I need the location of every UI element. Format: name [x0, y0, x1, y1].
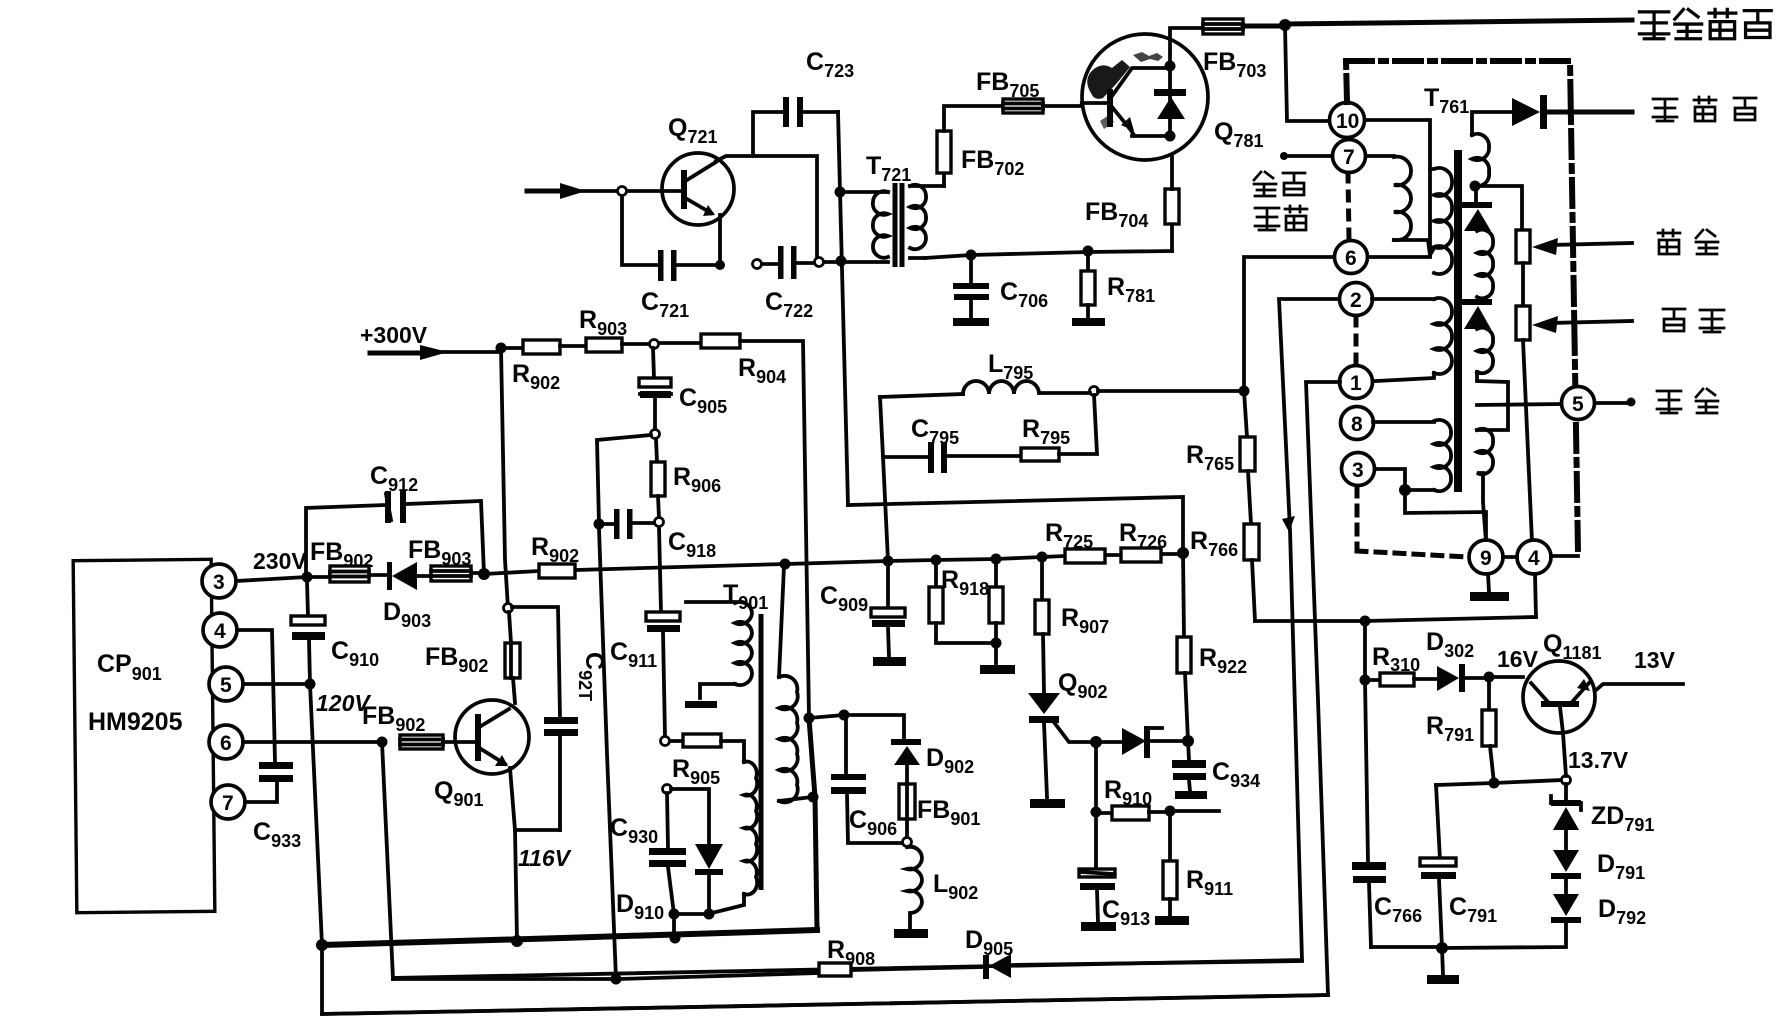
resistor R904	[659, 341, 701, 345]
transistor Q1181	[1523, 661, 1595, 733]
capacitor C913	[1094, 812, 1098, 869]
node 13.7V	[1562, 776, 1571, 785]
wire C918 vertical down to bus2	[599, 529, 616, 979]
T761 winding W1 (pins7-6)	[1366, 154, 1394, 158]
focus arrow	[1549, 243, 1632, 245]
label to-high-voltage	[1653, 97, 1756, 121]
pin 4 CP901	[203, 613, 237, 647]
junction R781 top	[1083, 246, 1094, 257]
T761 HV winding top section	[1472, 112, 1512, 135]
resistor R918 left	[934, 560, 938, 587]
HV winding jog	[1477, 372, 1508, 430]
diode D903	[369, 573, 387, 577]
resistor R725	[1065, 549, 1105, 563]
junction dots D910/C930 bottom	[669, 909, 680, 920]
diode D902	[891, 739, 921, 745]
pin 8	[1341, 407, 1374, 440]
T901 core	[759, 614, 764, 890]
+300V vertical down through FB902 to Q901 collector	[501, 348, 508, 608]
T761 winding W3 (pins2-1)	[1372, 297, 1434, 301]
wire pin4 right to shield	[1551, 554, 1578, 558]
svg-text:7: 7	[222, 792, 234, 815]
wire C722 to T721	[824, 260, 888, 264]
svg-text:13V: 13V	[1634, 647, 1676, 673]
screen potentiometer	[1516, 306, 1530, 340]
svg-text:13.7V: 13.7V	[1568, 747, 1629, 773]
wire pin2 left, long feedback vertical to bottom bus2	[393, 299, 1339, 978]
inductor L902	[907, 847, 922, 928]
svg-text:10: 10	[1336, 110, 1359, 133]
junction Q721 emitter / C721	[715, 260, 725, 270]
label filament	[1657, 389, 1718, 413]
pin 3 CP901	[202, 564, 236, 598]
ferrite bead FB902 pin6	[400, 735, 443, 749]
bus A right end up to C906 junction	[809, 718, 817, 930]
node R905 left	[661, 737, 670, 746]
resistor R795	[1021, 448, 1059, 461]
wire pin1 left, long vertical to bottom bus3	[322, 382, 1340, 1014]
junction L795/R765	[1239, 386, 1250, 397]
resistor R902 lower	[539, 564, 575, 578]
wire vertical C723 to R726 slant line	[838, 112, 848, 505]
junction T901 secondary bottom	[808, 792, 819, 803]
svg-text:16V: 16V	[1497, 646, 1539, 672]
resistor R905	[670, 739, 683, 743]
resistor R310	[1365, 678, 1380, 682]
diode D904	[1096, 740, 1122, 744]
node R903-R904	[650, 340, 659, 349]
svg-text:2: 2	[1350, 289, 1362, 312]
pin 10	[1330, 103, 1365, 138]
resistor R726	[1121, 548, 1161, 562]
wire input stub with arrow	[527, 189, 569, 194]
transistor Q721	[662, 153, 734, 225]
T761 winding W4 (pins8-3)	[1373, 420, 1434, 424]
label video-output-stage	[1254, 172, 1305, 196]
capacitor C905	[653, 348, 654, 378]
junction R791 bottom	[1489, 778, 1500, 789]
HV rectifier diode b	[1462, 299, 1492, 305]
pin 3	[1342, 453, 1375, 486]
wire pin3 to W4 bottom junction	[1375, 469, 1405, 490]
pin 4	[1517, 540, 1551, 574]
HV winding lower bumps	[1477, 429, 1493, 542]
pin 1	[1340, 366, 1373, 399]
wire pin6 left to R765 chain	[1244, 257, 1334, 391]
wire slant from C723 vertical to R726 junction	[848, 497, 1183, 553]
diode D910	[671, 789, 709, 844]
focus potentiometer	[1516, 230, 1530, 263]
svg-text:4: 4	[214, 620, 226, 643]
wire node left down the long C918 vertical	[597, 435, 651, 524]
pin 7 CP901	[211, 785, 245, 819]
capacitor C930	[667, 793, 668, 848]
bus A thick bottom	[322, 930, 817, 945]
capacitor C918	[594, 519, 605, 530]
zener diode ZD791	[1564, 784, 1568, 802]
wire pin6 right	[1368, 255, 1430, 259]
wire pin4 down to R310 rail	[1535, 574, 1536, 617]
wire pin6 junction down to bus2	[382, 742, 393, 979]
wire pin4 to C933	[237, 630, 275, 762]
wire T721 primary top	[840, 190, 888, 194]
wire FB703 junction down to pin10	[1285, 25, 1330, 121]
svg-text:4: 4	[1528, 547, 1540, 570]
wire Q1181 emitter out 13V	[1595, 684, 1683, 691]
ferrite bead FB902 on 230V rail	[307, 574, 330, 577]
ferrite bead FB702	[942, 173, 946, 186]
resistor R903	[560, 344, 586, 348]
wire Q901 emitter	[510, 768, 560, 830]
svg-text:9: 9	[1480, 547, 1492, 570]
wire pin6 row	[243, 740, 382, 744]
junction D904/R922/C934	[1182, 735, 1194, 747]
wire Q721 collector	[716, 156, 817, 257]
capacitor C723	[753, 112, 838, 156]
230V rail to right	[484, 554, 1183, 574]
svg-text:230V: 230V	[253, 548, 307, 574]
thyristor Q902	[1028, 693, 1060, 714]
junction R726/R922	[1177, 547, 1189, 559]
junction dots on 230V rail	[931, 555, 942, 566]
capacitor C912 loop	[306, 501, 484, 577]
resistor R910	[1094, 742, 1098, 812]
resistor R766	[1244, 524, 1259, 560]
node input	[618, 187, 627, 196]
pin 9	[1469, 540, 1503, 574]
T761 winding W2	[1430, 168, 1452, 274]
node C905-R906	[651, 430, 660, 439]
svg-text:116V: 116V	[518, 845, 572, 871]
capacitor C706	[969, 255, 973, 283]
pin 6	[1335, 241, 1368, 274]
ferrite bead FB703	[1203, 19, 1243, 34]
svg-text:7: 7	[1343, 146, 1355, 169]
junction Q902 gate	[1090, 736, 1102, 748]
capacitor C927	[544, 717, 578, 736]
dash pin2-pin1	[1354, 317, 1359, 365]
capacitor C721	[622, 196, 720, 265]
screen arrow	[1549, 321, 1632, 323]
ferrite bead FB902 vertical	[509, 612, 511, 643]
pin 7	[1333, 140, 1366, 173]
diode D792	[1553, 894, 1579, 916]
T901 secondary winding	[779, 566, 784, 677]
transistor Q781	[1082, 34, 1208, 160]
diode D791	[1553, 850, 1579, 872]
capacitor C795	[880, 397, 1021, 457]
diode HV top (to high voltage out)	[1512, 98, 1540, 126]
pin 6 CP901	[209, 725, 243, 759]
svg-text:3: 3	[213, 571, 225, 594]
resistor R907	[1040, 557, 1044, 600]
svg-text:5: 5	[220, 674, 232, 697]
pin 5 CP901	[209, 667, 243, 701]
transistor Q901	[455, 700, 529, 774]
resistor R781	[1086, 251, 1090, 271]
node C930 top	[663, 785, 672, 794]
ferrite bead FB901	[899, 784, 915, 819]
resistor R918 right	[994, 559, 998, 587]
junction ground bottom right	[1436, 942, 1448, 954]
junction dots on C723 vertical	[835, 187, 846, 198]
wire C795 junction down to 230V rail	[883, 457, 888, 561]
shield dash-dot top	[1346, 61, 1578, 552]
svg-text:HM9205: HM9205	[88, 708, 183, 736]
resistor R911	[1168, 811, 1172, 861]
node FB902v top	[504, 604, 513, 613]
wire pin3 to 230V junction	[236, 577, 307, 581]
junction pin5/120V	[305, 679, 316, 690]
label screen	[1663, 309, 1724, 332]
junction R791 top	[1484, 672, 1495, 683]
wire +300V feed arrow	[370, 351, 425, 356]
resistor R922	[1183, 553, 1184, 637]
junction T901 secondary top on 230V rail	[780, 559, 791, 570]
HV rectifier diode a	[1474, 191, 1478, 203]
dash pin7-pin6	[1348, 173, 1349, 241]
capacitor C909	[886, 561, 890, 608]
focus divider wire from HV junction	[1475, 186, 1522, 230]
svg-text:6: 6	[220, 732, 232, 755]
capacitor C766	[1365, 680, 1368, 862]
junction C906 row	[804, 713, 815, 724]
dash pin3 down and right to pin9	[1357, 487, 1468, 557]
bottom bus 2	[393, 961, 1302, 979]
wire down to R310 node	[1363, 621, 1367, 680]
pin 2	[1340, 283, 1373, 316]
wire node to Q721 base	[627, 189, 663, 193]
resistor R906	[656, 439, 657, 462]
wire node to C927	[512, 607, 560, 717]
wire pin5 to junction	[243, 682, 310, 686]
ferrite bead FB704	[1170, 224, 1174, 251]
CP901 IC box	[73, 559, 215, 912]
svg-text:3: 3	[1352, 459, 1364, 482]
T901 primary winding	[686, 600, 735, 604]
capacitor C910	[307, 581, 308, 616]
wire pin7 left stub	[1283, 154, 1332, 158]
diode D905	[983, 955, 989, 979]
ferrite bead FB903	[431, 566, 471, 581]
capacitor C933	[259, 762, 293, 782]
resistor R908	[819, 963, 851, 976]
node C721-C722	[753, 260, 762, 269]
svg-text:1: 1	[1350, 372, 1362, 395]
ground pin9	[1488, 574, 1489, 592]
T761 core	[1454, 150, 1462, 492]
resistor R765	[1244, 391, 1247, 437]
svg-text:+300V: +300V	[360, 322, 428, 348]
junction T721 secondary bottom	[966, 250, 977, 261]
wire pin10 right and down	[1365, 120, 1430, 255]
diode D302	[1437, 666, 1459, 691]
resistor R791	[1487, 677, 1491, 710]
bottom bus 3	[322, 945, 1328, 1014]
capacitor C911	[659, 527, 661, 612]
capacitor C934	[1188, 741, 1189, 760]
wire Q721 emitter	[718, 215, 722, 265]
node C722 right	[815, 258, 824, 267]
wire T721 secondary bottom to C706/R781/FB704	[925, 251, 1172, 258]
wire C910 vertical down to bus A	[310, 684, 322, 945]
T901 lower winding	[744, 762, 757, 895]
svg-text:5: 5	[1572, 393, 1584, 416]
wire C906/D902 top row	[809, 715, 904, 739]
wire R766 to pin4 rail	[1255, 617, 1536, 621]
svg-text:6: 6	[1345, 247, 1357, 270]
capacitor C906	[844, 715, 848, 774]
wire W4 junction down right to pin9	[1405, 490, 1486, 541]
label focus	[1658, 230, 1718, 254]
junction FB903 out	[478, 568, 490, 580]
wire filament tap to pin5	[1477, 404, 1561, 405]
junction +300V	[496, 343, 507, 354]
wire R904 right, long vertical to C906 junction	[740, 341, 809, 718]
node L902 top	[903, 838, 912, 847]
ferrite bead FB705	[1003, 99, 1043, 113]
capacitor C722	[762, 263, 814, 264]
label to-horizontal-deflection	[1639, 9, 1771, 38]
wire FB703 to deflection output	[1243, 24, 1285, 29]
capacitor C791	[1420, 858, 1456, 866]
pin 5	[1562, 387, 1595, 420]
HV winding mid bumps	[1477, 230, 1493, 298]
wire Q781 collector to top rail	[1170, 28, 1203, 66]
svg-text:8: 8	[1351, 413, 1363, 436]
resistor R902 upper	[501, 346, 523, 350]
